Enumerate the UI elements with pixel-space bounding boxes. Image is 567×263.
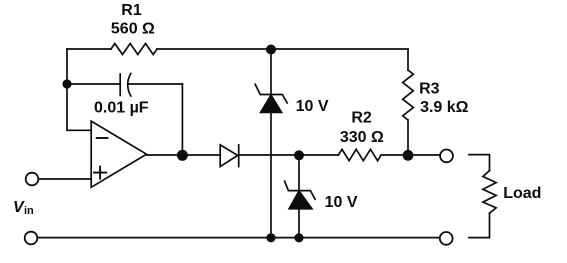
wire capacitor branch left	[67, 83, 120, 85]
wire diode to R2	[239, 154, 339, 156]
wire zener D3 bottom line	[298, 209, 300, 238]
svg-text:3.9 kΩ: 3.9 kΩ	[420, 99, 469, 116]
wire noninverting input	[39, 178, 92, 180]
wire bottom rail	[37, 237, 439, 239]
wire top left segment	[67, 48, 111, 50]
wire zener D2 top line	[270, 49, 272, 95]
wire R3 bottom	[407, 120, 409, 155]
zener D3 anode triangle	[289, 191, 312, 209]
wire load bracket top	[469, 155, 490, 171]
wire top right segment	[157, 48, 408, 50]
junction dot op-amp output node	[177, 150, 188, 161]
wire zener D2 bottom line	[270, 112, 272, 237]
terminal input bottom	[25, 232, 38, 245]
svg-text:10 V: 10 V	[325, 194, 358, 211]
terminal input plus	[26, 173, 39, 186]
svg-text:330 Ω: 330 Ω	[340, 129, 384, 146]
svg-text:10 V: 10 V	[296, 98, 329, 115]
wire R2 to output node	[381, 154, 440, 156]
svg-text:560 Ω: 560 Ω	[111, 21, 155, 38]
diode D1 cathode bar	[238, 145, 240, 167]
zener D2 anode triangle	[261, 95, 282, 112]
svg-text:R1: R1	[121, 2, 142, 19]
terminal output top	[440, 150, 453, 163]
zener D3 cathode bar with bent ends	[285, 181, 316, 199]
resistor R1 body	[111, 44, 157, 55]
junction dot zener D3 bottom	[294, 233, 303, 242]
op-amp inverting input minus sign	[97, 137, 108, 139]
resistor R3 body	[403, 70, 414, 120]
op-amp U1	[91, 121, 146, 187]
wire zener D3 top line	[298, 155, 300, 191]
capacitor C1 right curved plate	[128, 74, 131, 97]
junction dot zener D2 bottom	[266, 233, 275, 242]
junction dot zener D3 top	[294, 150, 304, 160]
wire op-amp output	[147, 154, 221, 156]
op-amp noninverting input plus sign	[94, 167, 106, 179]
zener D2 cathode bar with bent ends	[255, 84, 287, 103]
wire load bracket bottom	[469, 213, 490, 237]
wire left feedback drop to inverting input	[67, 49, 91, 130]
wire capacitor branch right	[129, 83, 183, 85]
junction dot R2 R3 node	[403, 150, 414, 161]
svg-text:in: in	[24, 205, 34, 217]
svg-text:0.01 µF: 0.01 µF	[94, 100, 149, 117]
svg-text:R2: R2	[351, 110, 372, 127]
diode D1 triangle	[220, 145, 238, 167]
svg-text:Load: Load	[503, 185, 541, 202]
terminal output bottom	[440, 232, 453, 245]
junction dot zener D2 top	[266, 45, 276, 55]
junction dot capacitor tap	[62, 79, 71, 88]
capacitor C1 left plate	[119, 74, 121, 95]
resistor Load body	[483, 171, 496, 214]
wire feedback vertical to output node	[181, 84, 183, 155]
wire R3 top	[407, 49, 409, 70]
svg-text:R3: R3	[419, 81, 440, 98]
resistor R2 body	[338, 149, 381, 160]
